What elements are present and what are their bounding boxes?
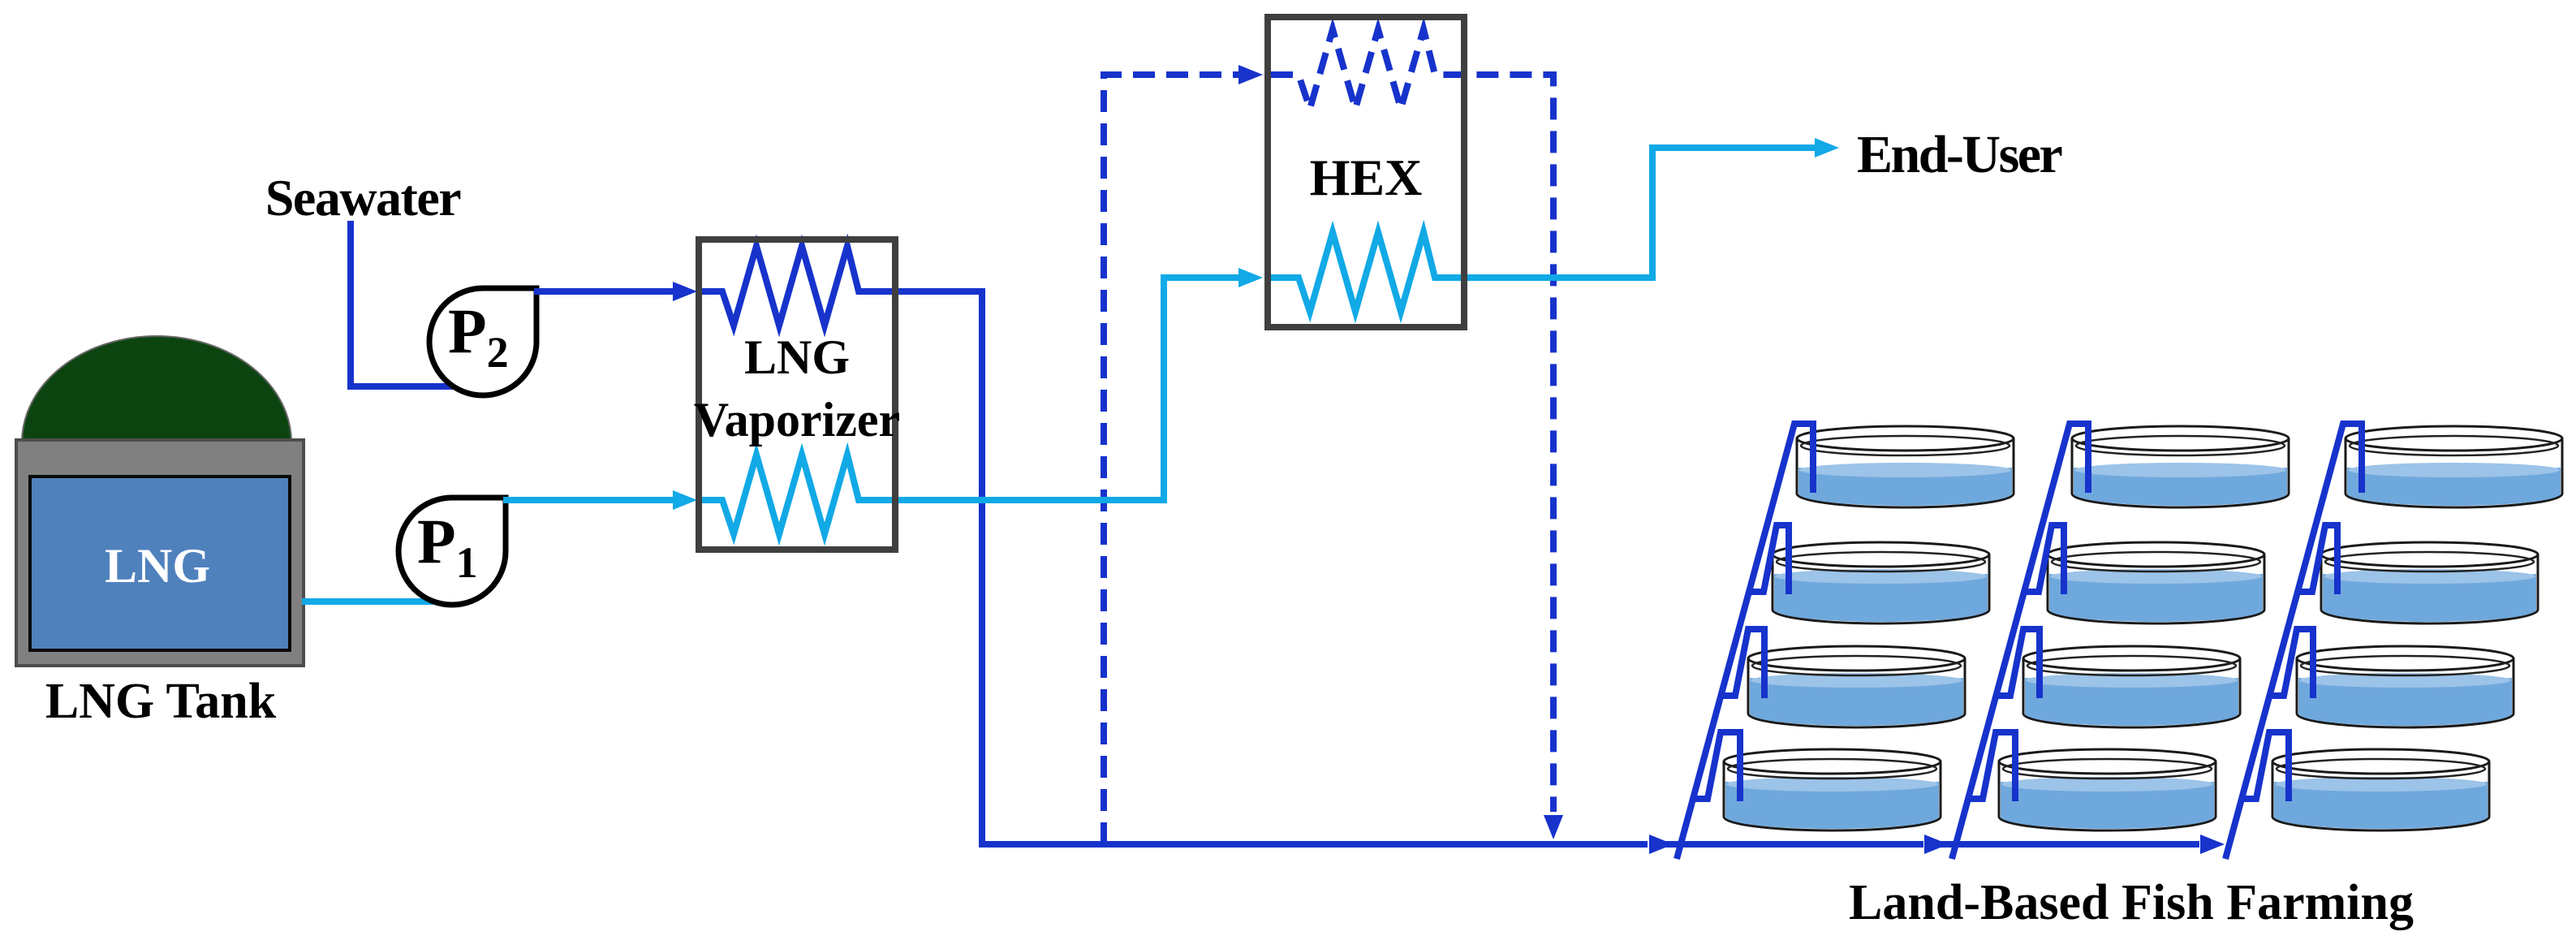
column 2 supply riser pipe — [1952, 424, 2088, 859]
column 2 feeder pipe to tank 2 — [2024, 525, 2064, 594]
wire fish line col1 to col2 — [1664, 841, 1923, 848]
svg-text:LNG Tank: LNG Tank — [45, 674, 277, 729]
pump P2 body — [429, 288, 536, 395]
fish tank column 3 row 1 — [2346, 426, 2562, 507]
LNG Vaporizer box interior — [699, 239, 895, 550]
HEX box border — [1268, 17, 1464, 327]
svg-text:Vaporizer: Vaporizer — [694, 393, 900, 446]
LNG tank outer shell — [16, 440, 304, 666]
fish tank column 1 row 1 — [1797, 426, 2014, 507]
svg-text:LNG: LNG — [105, 539, 210, 593]
arrowhead fish line column 3 — [2200, 835, 2225, 854]
LNG tank dome — [22, 336, 291, 442]
wire fish line col2 to col3 — [1940, 841, 2199, 848]
arrowhead fish line column 2 — [1924, 835, 1949, 854]
column 1 supply riser pipe — [1677, 424, 1813, 859]
vaporizer cold coil and wire to HEX — [701, 278, 1240, 534]
fish tank column 1 row 4 — [1724, 749, 1941, 830]
arrowhead into vaporizer cold side — [673, 490, 697, 510]
fish tank column 2 row 1 — [2072, 426, 2289, 507]
HEX hot coil dashed and wire down to fish line — [1271, 29, 1553, 812]
fish tank column 3 row 4 — [2272, 749, 2489, 830]
fish tank column 2 row 4 — [1999, 749, 2216, 830]
svg-text:LNG: LNG — [744, 330, 850, 384]
svg-text:Seawater: Seawater — [265, 169, 461, 226]
HEX box interior — [1268, 17, 1464, 327]
fish tank column 3 row 3 — [2297, 646, 2514, 727]
column 3 feeder pipe to tank 2 — [2298, 525, 2337, 594]
pump P1 body — [398, 498, 506, 605]
LNG Vaporizer box border — [699, 239, 895, 550]
column 3 supply riser pipe — [2225, 424, 2362, 859]
svg-text:Land-Based Fish Farming: Land-Based Fish Farming — [1849, 875, 2414, 930]
arrowhead down to fish line — [1544, 815, 1563, 839]
column 2 feeder pipe to tank 4 — [1968, 732, 2015, 801]
arrowhead into HEX cold side — [1238, 268, 1263, 287]
column 3 feeder pipe to tank 4 — [2242, 732, 2289, 801]
HEX cold coil and wire to End-User — [1271, 148, 1815, 312]
LNG tank inner vessel — [30, 477, 290, 650]
wire P1 to vaporizer — [503, 497, 674, 503]
column 1 feeder pipe to tank 4 — [1693, 732, 1740, 801]
fish tank column 1 row 2 — [1773, 542, 1989, 623]
wire P2 to vaporizer — [534, 288, 674, 295]
fish tank column 3 row 2 — [2321, 542, 2538, 623]
fish tank column 2 row 2 — [2048, 542, 2264, 623]
arrowhead into vaporizer hot side — [673, 282, 697, 301]
fish tank column 2 row 3 — [2023, 646, 2240, 727]
column 1 feeder pipe to tank 3 — [1721, 629, 1764, 698]
vaporizer hot coil and wire to fish line — [701, 246, 1648, 844]
wire seawater to pump P2 — [351, 221, 459, 386]
column 3 feeder pipe to tank 3 — [2269, 629, 2313, 698]
arrowhead to End-User — [1815, 138, 1839, 157]
wire LNG tank to pump P1 — [302, 598, 442, 605]
svg-text:End-User: End-User — [1857, 125, 2062, 184]
arrowhead fish line column 1 — [1649, 835, 1674, 854]
svg-text:HEX: HEX — [1310, 149, 1423, 206]
arrowhead into HEX hot side — [1238, 65, 1263, 84]
fish tank column 1 row 3 — [1748, 646, 1965, 727]
dashed wire fish line to HEX hot side — [1104, 75, 1238, 844]
column 2 feeder pipe to tank 3 — [1996, 629, 2040, 698]
column 1 feeder pipe to tank 2 — [1749, 525, 1789, 594]
